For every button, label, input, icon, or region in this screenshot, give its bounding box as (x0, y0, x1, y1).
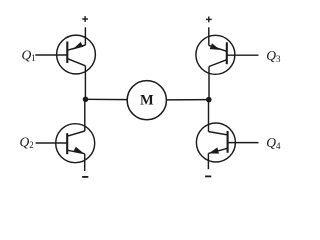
power + terminal (left) (82, 16, 88, 22)
power - terminal (left) (82, 176, 88, 178)
node B (206, 97, 212, 103)
wire: Q4 base lead (228, 142, 259, 144)
transistor Q4 (NPN) (196, 123, 235, 162)
wire: node A to Q2 collector (84, 99, 86, 131)
power - terminal (right) (205, 175, 211, 177)
power + terminal (right) (206, 17, 212, 23)
wire: + to Q1 emitter (84, 27, 86, 45)
wire: Q3 base lead (227, 54, 259, 56)
transistor Q2 (NPN) (56, 124, 95, 163)
wire: node B to Q4 collector (208, 100, 210, 132)
transistor Q3 (PNP) (196, 35, 235, 74)
wire: Q1 collector to node A (84, 66, 86, 100)
svg-text:M: M (140, 93, 154, 109)
wire: + to Q3 emitter (208, 27, 210, 45)
wire: Q2 base lead (36, 142, 68, 144)
motor M (127, 81, 166, 120)
wire: Q1 base lead (35, 54, 67, 56)
wire: motor to node B (166, 99, 209, 101)
wire: Q2 emitter to - terminal (84, 154, 86, 171)
wire: Q4 emitter to - terminal (207, 153, 209, 169)
wire: Q3 collector to node B (208, 67, 210, 100)
transistor Q1 (PNP) (57, 35, 96, 74)
node A (83, 97, 89, 103)
wire: node A to motor (85, 98, 127, 100)
